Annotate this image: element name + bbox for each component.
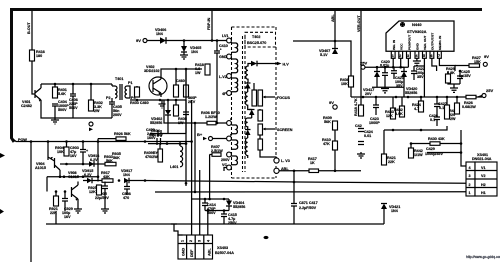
- capacitor C929: [62, 192, 68, 212]
- svg-text:V2: V2: [481, 174, 486, 178]
- svg-text:22K: 22K: [388, 160, 395, 164]
- wire emitter row y100: [150, 99, 186, 101]
- resistor R442: [409, 148, 414, 158]
- resistor R402: [89, 100, 94, 111]
- diode VD407: [332, 49, 338, 55]
- capacitor C410: [214, 41, 220, 124]
- svg-text:FBP-IN: FBP-IN: [207, 17, 211, 30]
- svg-text:500V: 500V: [69, 106, 78, 110]
- capacitor C421: [391, 67, 397, 79]
- svg-text:1000µ/35V: 1000µ/35V: [425, 152, 443, 156]
- svg-text:T401: T401: [115, 77, 123, 81]
- border frame left: [12, 8, 15, 142]
- screen pot arrow: [264, 128, 275, 130]
- svg-text:15K: 15K: [474, 60, 481, 64]
- terminal 25V right: [482, 94, 486, 98]
- svg-text:1N4: 1N4: [123, 173, 131, 177]
- diode sec2: [245, 83, 251, 89]
- ground C905: [101, 207, 109, 213]
- svg-text:250V: 250V: [228, 221, 237, 225]
- svg-text:P1: P1: [128, 81, 133, 85]
- svg-text:4F: 4F: [222, 92, 227, 96]
- resistor screen1: [258, 110, 263, 121]
- capacitor C934: [157, 138, 161, 145]
- svg-text:500V: 500V: [58, 108, 67, 112]
- diode VD404: [226, 201, 232, 207]
- svg-text:22µ/50V: 22µ/50V: [95, 196, 109, 200]
- svg-text:H.V: H.V: [283, 63, 290, 67]
- wire ABL row y171: [279, 170, 361, 172]
- svg-text:L. V3: L. V3: [281, 159, 290, 163]
- svg-text:N440: N440: [412, 22, 422, 27]
- svg-text:1/1W: 1/1W: [414, 153, 423, 157]
- wire x191.6 vert: [191, 100, 193, 235]
- ground row bottom: [46, 223, 384, 225]
- wire x195 vert: [194, 123, 196, 192]
- wire C429 row: [427, 152, 461, 154]
- svg-text:1.2/2W: 1.2/2W: [205, 115, 217, 119]
- svg-text:MEMO. IN: MEMO. IN: [438, 36, 442, 50]
- wire VC stub: [224, 168, 227, 172]
- capacitor C871 C417: [291, 182, 297, 224]
- svg-text:0.68/2W: 0.68/2W: [462, 105, 476, 109]
- svg-text:L.V2: L.V2: [219, 75, 227, 79]
- svg-text:16V: 16V: [64, 215, 71, 219]
- capacitor C427: [434, 97, 440, 114]
- wire x209.6 vert: [209, 155, 211, 200]
- junction: [185, 68, 188, 71]
- pin LV1: [227, 38, 232, 43]
- wire x199.7 vert: [199, 170, 201, 235]
- svg-text:10µ/16V: 10µ/16V: [149, 133, 163, 137]
- svg-text:16V: 16V: [70, 154, 77, 158]
- transistor V908: [72, 182, 79, 208]
- svg-text:T402: T402: [252, 35, 260, 39]
- wire row 87: [372, 86, 404, 88]
- svg-text:1µ/35V: 1µ/35V: [459, 74, 471, 78]
- wire pin5: [423, 58, 425, 97]
- border frame top: [10, 8, 482, 11]
- pin boxes: [391, 51, 395, 58]
- wire T401 pin P3 top: [112, 85, 115, 87]
- svg-text:1: 1: [469, 191, 471, 195]
- pin R407pin: [227, 152, 232, 157]
- ground: [159, 100, 166, 108]
- wire row 67: [365, 66, 408, 68]
- capacitor C404: [52, 104, 58, 118]
- resistor R418b: [359, 105, 364, 116]
- svg-text:2.2µF/50V: 2.2µF/50V: [299, 206, 317, 210]
- ground: [357, 152, 365, 158]
- svg-text:1: 1: [392, 54, 394, 58]
- svg-text:PUMPOUT: PUMPOUT: [407, 35, 411, 50]
- svg-text:V1: V1: [481, 166, 486, 170]
- wire ABL vertical: [334, 11, 336, 48]
- svg-text:200V: 200V: [113, 113, 122, 117]
- svg-text:C42: C42: [355, 124, 362, 128]
- row V908 base: [47, 176, 98, 178]
- svg-text:0.1: 0.1: [439, 106, 444, 110]
- svg-text:LV1: LV1: [222, 34, 229, 38]
- wire row210.5: [205, 210, 229, 212]
- wire row180.5: [98, 180, 102, 182]
- svg-text:2W: 2W: [94, 109, 100, 113]
- svg-text:552956: 552956: [233, 205, 245, 209]
- svg-text:6.2V: 6.2V: [90, 158, 98, 162]
- op-amp U1 N440 STV9302A: [386, 21, 454, 51]
- svg-text:BSC25-070: BSC25-070: [247, 41, 266, 45]
- wire pin2: [400, 58, 402, 67]
- resistor R4A: [174, 85, 179, 97]
- junction: [54, 83, 57, 86]
- svg-text:9V: 9V: [484, 54, 489, 59]
- terminal 9V mid: [333, 105, 337, 109]
- resistor R433: [391, 108, 396, 119]
- capacitor C426: [358, 129, 364, 132]
- pin circle collector: [227, 121, 232, 126]
- ground: [448, 83, 460, 92]
- capacitor C428: [434, 114, 440, 126]
- svg-text:R418 4.7K: R418 4.7K: [354, 98, 358, 116]
- svg-text:VC: VC: [222, 163, 227, 167]
- svg-text:2: 2: [399, 54, 401, 58]
- svg-text:B+: B+: [197, 132, 203, 137]
- pin LV2: [227, 74, 232, 79]
- diode sec3: [249, 110, 255, 116]
- capacitor C425: [457, 71, 463, 84]
- B+ arrow terminal: [203, 137, 207, 141]
- svg-text:GND: GND: [219, 55, 228, 59]
- capacitor C424: [358, 142, 364, 145]
- wire pin3: [407, 58, 409, 67]
- T402 secondary winding 2: [245, 92, 247, 107]
- wire row87 drop: [403, 87, 405, 97]
- capacitor C405: [73, 98, 115, 118]
- svg-text:http://www.go-gddq.com: http://www.go-gddq.com: [466, 255, 500, 259]
- diode VD917: [124, 178, 129, 184]
- svg-text:5.6K: 5.6K: [58, 92, 66, 96]
- svg-text:DN021-04A: DN021-04A: [472, 157, 492, 161]
- diode VD417: [374, 72, 380, 78]
- svg-text:B-OUT: B-OUT: [27, 22, 31, 34]
- svg-text:SCREEN: SCREEN: [277, 128, 293, 132]
- svg-text:1000P: 1000P: [369, 121, 380, 125]
- svg-text:1N4: 1N4: [191, 50, 199, 54]
- svg-text:XS403: XS403: [217, 246, 228, 250]
- resistor R425: [455, 103, 460, 114]
- wire B-OUT vertical: [31, 11, 33, 50]
- pin GND: [227, 54, 232, 59]
- svg-text:C460: C460: [176, 79, 185, 83]
- resistor R418a: [205, 64, 210, 75]
- ground: [180, 55, 188, 59]
- inductor L401: [180, 144, 183, 167]
- svg-text:9V: 9V: [136, 38, 141, 43]
- ground pin4: [413, 58, 421, 65]
- svg-text:7: 7: [438, 54, 440, 58]
- wire POW row: [13, 139, 191, 142]
- left margin mark 2: [0, 209, 4, 214]
- T402 primary winding: [232, 43, 238, 52]
- svg-text:VER. OUT: VER. OUT: [423, 35, 427, 50]
- diode VD420: [401, 72, 407, 78]
- wire 9V row: [147, 40, 227, 42]
- resistor R401: [53, 87, 58, 98]
- resistor R409: [333, 121, 338, 130]
- capacitor C905: [102, 182, 108, 208]
- resistor R408: [349, 76, 354, 87]
- terminal 9V right: [483, 62, 487, 66]
- wire T401 right pins: [127, 86, 130, 98]
- resistor R917: [102, 179, 113, 183]
- ground V908: [74, 207, 82, 213]
- bus H2: [145, 181, 466, 184]
- ground: [51, 118, 59, 124]
- svg-text:470/2W: 470/2W: [145, 155, 158, 159]
- svg-text:3DD2102: 3DD2102: [144, 69, 160, 73]
- svg-text:ABL: ABL: [207, 248, 211, 256]
- capacitor C422: [411, 66, 424, 80]
- svg-text:6.8K: 6.8K: [447, 71, 455, 75]
- resistor R410: [333, 141, 338, 150]
- svg-text:3: 3: [198, 240, 202, 242]
- resistor R421: [382, 154, 387, 165]
- svg-text:56K: 56K: [324, 120, 331, 124]
- resistor R426: [466, 95, 476, 99]
- svg-text:1N4: 1N4: [156, 32, 164, 36]
- wire mid verticals: [185, 69, 187, 186]
- wire row164: [60, 163, 98, 165]
- svg-text:C2482: C2482: [21, 104, 32, 108]
- diode sec4: [245, 130, 251, 136]
- svg-text:180: 180: [36, 54, 42, 58]
- focus pot arrow: [264, 96, 275, 98]
- svg-text:INH. IN: INH. IN: [392, 40, 396, 50]
- wire T401 left pins: [111, 84, 113, 86]
- capacitor C409 2.2u: [158, 130, 161, 137]
- wire R416 to V401 base: [32, 61, 35, 94]
- svg-text:+: +: [86, 149, 88, 153]
- focus resistor pair: [252, 90, 257, 106]
- svg-text:552956: 552956: [405, 91, 417, 95]
- wire pin4 drop: [207, 211, 209, 236]
- svg-text:0.01: 0.01: [364, 134, 371, 138]
- resistor R405: [174, 105, 179, 116]
- resistor R432: [400, 106, 405, 117]
- svg-text:35V: 35V: [417, 75, 424, 79]
- diode VD405: [181, 46, 187, 52]
- transistor V904: [48, 142, 60, 177]
- capacitor C414: [202, 199, 208, 211]
- resistor R406 BF10: [164, 100, 207, 123]
- svg-text:0.1: 0.1: [430, 118, 435, 122]
- svg-text:6.2V: 6.2V: [84, 173, 92, 177]
- diode VD406: [160, 37, 166, 44]
- diode VD402: [165, 110, 171, 115]
- svg-text:3.9K: 3.9K: [395, 112, 403, 116]
- left margin mark 1: [0, 153, 5, 158]
- wire hook pin1: [174, 224, 183, 235]
- svg-text:470: 470: [123, 196, 129, 200]
- resistor screen3: [258, 139, 263, 150]
- svg-text:2W: 2W: [450, 117, 456, 121]
- svg-text:12K: 12K: [89, 190, 96, 194]
- wire L401 net: [148, 143, 186, 145]
- svg-text:5.1V: 5.1V: [320, 53, 328, 57]
- svg-text:1N4: 1N4: [391, 209, 399, 213]
- wire row41 to R408: [293, 41, 351, 76]
- capacitor C423: [373, 97, 379, 115]
- svg-text:47K: 47K: [323, 142, 330, 146]
- wire FBP-IN: [211, 11, 213, 41]
- terminal: [89, 122, 93, 126]
- resistor R417: [309, 169, 319, 173]
- resistor R933: [105, 162, 116, 166]
- wire x98 vert: [97, 139, 99, 182]
- svg-text:A1015: A1015: [35, 166, 46, 170]
- capacitor C936: [124, 182, 130, 196]
- resistor R921: [54, 196, 59, 206]
- wire R430 row: [411, 143, 461, 145]
- transformer T402 box: [232, 27, 277, 178]
- wire V402 collector row y69: [161, 69, 196, 77]
- wire R401-C404: [54, 84, 56, 87]
- svg-text:STV9302A: STV9302A: [407, 29, 427, 34]
- svg-text:3: 3: [407, 54, 409, 58]
- T402 secondary winding 1: [246, 64, 251, 83]
- wire R404 to V402 base: [136, 86, 138, 87]
- svg-text:GND: GND: [182, 247, 186, 256]
- svg-text:VCC: VCC: [400, 43, 404, 50]
- svg-text:R926 56K: R926 56K: [114, 132, 131, 136]
- svg-text:H2: H2: [481, 183, 486, 187]
- wire vert x457: [460, 142, 463, 145]
- resistor R416: [30, 50, 35, 61]
- svg-text:2: 2: [189, 240, 193, 242]
- wire row y133.5: [150, 133, 186, 135]
- T402 secondary winding 4: [246, 138, 248, 158]
- resistor R4B: [184, 85, 189, 97]
- wire row97 25V: [351, 96, 482, 98]
- capacitor C903: [80, 142, 86, 165]
- resistor R429: [446, 74, 451, 83]
- resistor R423: [445, 105, 450, 119]
- wire collector row y84: [41, 83, 112, 85]
- transistor V402: [149, 77, 167, 95]
- svg-text:DEF: DEF: [190, 249, 194, 257]
- resistor R904: [64, 147, 69, 156]
- bus H1: [155, 191, 466, 193]
- node H.V: [257, 63, 277, 65]
- capacitor C415: [221, 211, 227, 225]
- wire VER-OUT vertical: [360, 11, 362, 105]
- diode VD916: [89, 161, 94, 167]
- pin B+: [227, 136, 232, 141]
- junction: [72, 83, 75, 86]
- resistor R427: [469, 64, 480, 68]
- T402 secondary winding 3: [245, 107, 251, 129]
- diode VD915: [87, 178, 92, 184]
- wire R402 to terminal: [90, 84, 92, 100]
- ink blob: [264, 236, 269, 239]
- svg-text:C1815: C1815: [68, 175, 79, 179]
- pin VC: [227, 165, 232, 170]
- svg-text:1K: 1K: [310, 161, 315, 165]
- svg-text:R403 C460: R403 C460: [130, 101, 149, 105]
- svg-text:200V: 200V: [221, 158, 230, 162]
- svg-text:OUTPUT/ST: OUTPUT/ST: [431, 33, 435, 50]
- diode VD421: [381, 204, 387, 210]
- resistor R925: [97, 185, 102, 195]
- svg-text:H1: H1: [481, 191, 486, 195]
- svg-text:10K: 10K: [57, 150, 64, 154]
- capacitor C420cap: [382, 67, 388, 87]
- svg-text:C429: C429: [426, 147, 435, 151]
- pin ABL: [274, 168, 279, 173]
- svg-text:4.7: 4.7: [414, 107, 419, 111]
- svg-text:25V: 25V: [486, 88, 493, 93]
- svg-text:2: 2: [469, 183, 471, 187]
- svg-text:R430 43K: R430 43K: [428, 137, 445, 141]
- svg-text:56K: 56K: [106, 159, 113, 163]
- junction: [175, 68, 178, 71]
- resistor R409BY: [158, 149, 163, 162]
- wire left drop: [30, 142, 32, 262]
- svg-text:25V: 25V: [360, 61, 367, 66]
- svg-text:43K: 43K: [103, 175, 110, 179]
- wire pin6: [432, 58, 437, 71]
- capacitor C409b: [183, 100, 189, 134]
- capacitor C406: [70, 84, 76, 118]
- svg-text:FOCUS: FOCUS: [277, 96, 290, 100]
- svg-text:9V: 9V: [329, 100, 334, 105]
- svg-text:6: 6: [431, 54, 433, 58]
- svg-text:GND: GND: [416, 42, 420, 50]
- connector XS403: [178, 235, 213, 259]
- ground row87: [381, 87, 389, 93]
- wire emitter down: [41, 104, 73, 118]
- wire vert to XS401 pin4: [461, 130, 466, 166]
- terminal 25V a: [361, 65, 365, 69]
- resistor R430: [430, 142, 440, 146]
- svg-text:12K: 12K: [386, 114, 393, 118]
- svg-text:552956: 552956: [150, 121, 162, 125]
- resistor screen2: [258, 124, 263, 135]
- pin L.V3: [274, 158, 279, 163]
- wire row199: [192, 198, 229, 200]
- pin AFC: [227, 91, 232, 96]
- T402 core: [243, 36, 246, 172]
- svg-text:1: 1: [181, 240, 185, 242]
- resistor R424: [419, 101, 424, 112]
- transistor V401: [35, 84, 41, 104]
- svg-text:B2507-04A: B2507-04A: [215, 251, 234, 255]
- svg-text:0.01µ: 0.01µ: [380, 64, 389, 68]
- svg-text:5: 5: [423, 54, 425, 58]
- resistor R404: [135, 87, 140, 97]
- resistor R926: [116, 137, 126, 141]
- diode HV1: [251, 61, 257, 67]
- svg-text:3: 3: [469, 174, 471, 178]
- svg-text:10K: 10K: [341, 82, 348, 86]
- svg-text:1W: 1W: [195, 71, 201, 75]
- svg-text:20V: 20V: [365, 92, 372, 96]
- wire pin1: [392, 58, 394, 67]
- wire C427 C428 R423 join: [384, 126, 447, 130]
- wire ABL down to bus: [293, 171, 295, 182]
- wire pin7: [439, 58, 455, 71]
- svg-text:L401: L401: [170, 165, 178, 169]
